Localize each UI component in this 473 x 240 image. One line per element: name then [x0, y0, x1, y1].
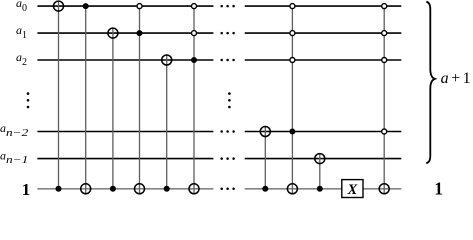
svg-text:1: 1 — [22, 180, 31, 199]
svg-text:1: 1 — [434, 179, 443, 199]
svg-text:X: X — [347, 182, 358, 198]
svg-text:a + 1: a + 1 — [441, 70, 471, 87]
